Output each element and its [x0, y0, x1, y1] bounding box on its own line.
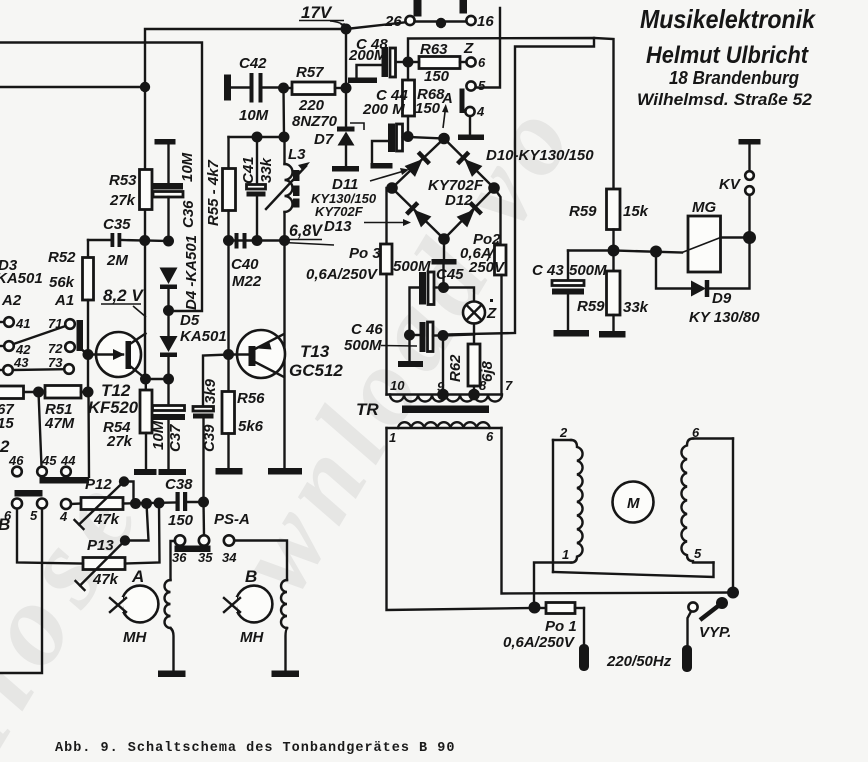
node: L3 top — [279, 132, 290, 143]
svg-text:Z: Z — [486, 305, 497, 322]
potentiometer P12 47k — [59, 476, 124, 529]
node: bridge left vertex — [386, 182, 398, 194]
diode D12 (bridge, right-bottom arm) — [456, 203, 481, 228]
svg-text:T13: T13 — [300, 342, 330, 361]
svg-text:1: 1 — [562, 547, 569, 562]
svg-text:C45: C45 — [436, 266, 464, 283]
svg-text:C42: C42 — [239, 55, 267, 72]
ground: under D7 — [332, 166, 359, 172]
svg-text:Po 3: Po 3 — [349, 245, 381, 262]
svg-text:C39: C39 — [201, 424, 218, 452]
resistor R59 15k — [569, 189, 649, 251]
svg-text:Abb. 9. Schaltschema des Tonba: Abb. 9. Schaltschema des Tonbandgerätes … — [55, 741, 455, 756]
fuse Po3 0,6A/250V — [306, 244, 392, 283]
node: C41 top — [252, 132, 263, 143]
node: T12 source junction — [140, 374, 151, 385]
svg-text:R59: R59 — [569, 203, 597, 220]
node: C46 left junction — [404, 330, 415, 341]
svg-text:C41: C41 — [240, 156, 257, 184]
head MH A — [110, 586, 158, 646]
svg-text:5k6: 5k6 — [238, 418, 264, 435]
wire: 43 to 73 — [13, 368, 64, 371]
node: C38/C39/PS-A junction — [198, 497, 209, 508]
svg-text:D5: D5 — [180, 312, 200, 329]
svg-text:C 46: C 46 — [351, 321, 383, 338]
node: transformer pin 9 — [437, 389, 449, 401]
node: C45 right junction — [438, 282, 449, 293]
node: 17V junction — [341, 24, 352, 35]
capacitor C46 500M — [344, 321, 443, 354]
motor M — [613, 482, 654, 523]
wire: left input line 1 (y=42) into vertical x=202 — [0, 43, 202, 312]
ground: under R56 — [216, 468, 243, 475]
capacitor C38 150 — [165, 476, 204, 529]
wire: left vertex to Po3 — [387, 188, 393, 244]
wire: left input line 2 (y=87) to node at x=145 — [0, 86, 145, 88]
svg-text:D12: D12 — [445, 192, 473, 209]
svg-text:33k: 33k — [623, 299, 649, 316]
svg-text:Po 1: Po 1 — [545, 618, 577, 635]
wire: secondary right down and right to VYP node — [502, 428, 734, 594]
resistor R56 5k6 — [222, 355, 265, 469]
svg-text:5: 5 — [478, 78, 486, 93]
svg-text:0,6A/250V: 0,6A/250V — [503, 634, 576, 651]
switch PS-A pin 36 — [172, 535, 187, 565]
node: rail junction c — [154, 498, 165, 509]
motor winding 6-5 — [681, 425, 733, 563]
node: R55 bottom — [223, 235, 234, 246]
svg-text:4: 4 — [59, 509, 68, 524]
svg-text:3k9: 3k9 — [202, 378, 219, 404]
svg-text:17V: 17V — [301, 3, 333, 22]
transformer TR primary winding 10-9-8-7 — [387, 378, 514, 402]
svg-text:A: A — [441, 90, 453, 107]
connector pin 71 — [48, 316, 75, 331]
contact bar between pins 5 and 4 — [460, 89, 465, 114]
motor winding 2-1 — [534, 425, 583, 608]
resistor R53 27k — [109, 170, 152, 210]
svg-text:C35: C35 — [103, 216, 131, 233]
svg-text:220: 220 — [298, 97, 325, 114]
svg-text:150: 150 — [168, 512, 194, 529]
wire: winding 6 down to VYP node — [732, 439, 734, 593]
wire: wiper link to output rail — [124, 482, 134, 504]
connector pin 41 — [0, 316, 30, 331]
ground: under C43 — [554, 330, 590, 337]
head MH B — [224, 586, 272, 646]
svg-text:R53: R53 — [109, 172, 137, 189]
wire: pin 34 to head coil B — [234, 541, 287, 581]
switch PS-A pin 35 — [198, 502, 213, 565]
ground: under C44 — [371, 163, 393, 169]
connector pin 26 — [384, 0, 422, 30]
wire: C46 node to lamp/R62 rail — [443, 335, 474, 336]
transistor T13 GC512 — [229, 330, 344, 380]
wire: output rail y=503 to C38 — [123, 503, 176, 504]
node: T12 gate junction — [83, 349, 94, 360]
contact KV — [719, 139, 761, 238]
label: D3 KA501 — [0, 257, 43, 287]
wire: Po1 to mains pin left — [583, 608, 585, 644]
node: C36/D4 junction — [163, 236, 174, 247]
node: P13 wiper — [120, 535, 130, 545]
capacitor C41 33k — [240, 137, 275, 241]
wire: link 26 to 16 with junction — [415, 18, 467, 28]
svg-text:KY702F: KY702F — [315, 204, 364, 219]
svg-text:A: A — [131, 567, 144, 586]
svg-text:43: 43 — [13, 355, 29, 370]
label A with arrow — [441, 90, 453, 128]
node: junction x=145 y=87 — [140, 82, 150, 92]
svg-text:26: 26 — [384, 13, 402, 30]
svg-text:R62: R62 — [447, 354, 464, 382]
svg-text:MH: MH — [123, 629, 147, 646]
wire: R51 node down to contact bar — [87, 392, 90, 477]
svg-text:B: B — [245, 567, 257, 586]
svg-text:D10-KY130/150: D10-KY130/150 — [486, 147, 594, 164]
svg-text:Musikelektronik: Musikelektronik — [640, 4, 816, 34]
svg-text:VYP.: VYP. — [699, 624, 731, 641]
svg-text:1: 1 — [389, 430, 396, 445]
coil: head B winding — [281, 580, 287, 671]
connector pin 42 — [0, 341, 31, 357]
svg-text:KA501: KA501 — [0, 270, 43, 287]
node: R57 right junction on zener rail — [341, 83, 352, 94]
svg-text:C 43: C 43 — [532, 262, 564, 279]
svg-text:36: 36 — [172, 550, 187, 565]
capacitor C36 10M — [153, 139, 198, 241]
capacitor C42 — [224, 55, 284, 124]
wire: bar to T12 gate node — [81, 349, 88, 355]
svg-text:150: 150 — [424, 68, 450, 85]
resistor R67 partial at left edge — [0, 386, 34, 432]
node: rail junction b — [141, 498, 152, 509]
svg-text:6: 6 — [478, 55, 486, 70]
wire: right vertex to Po2 — [494, 188, 501, 245]
capacitor C39 3k9 — [193, 378, 219, 502]
node: C42/R57 junction — [278, 83, 289, 94]
svg-text:47k: 47k — [93, 511, 120, 528]
relay MG — [682, 199, 750, 272]
svg-text:0,6A/250V: 0,6A/250V — [306, 266, 379, 283]
wire: vertical x=500 from top edge down to contact 5 — [476, 8, 500, 88]
node: R51 left junction — [33, 387, 44, 398]
svg-text:A1: A1 — [54, 292, 74, 309]
watermark diagonal text — [0, 77, 600, 762]
wire: P13 wiper to rail junction b — [125, 504, 149, 541]
wire: T13 base to C39 leg — [203, 355, 229, 407]
svg-text:6: 6 — [486, 429, 494, 444]
svg-text:33k: 33k — [258, 157, 275, 183]
svg-text:15: 15 — [0, 415, 14, 432]
resistor R62 6j8 — [447, 335, 496, 395]
svg-text:MH: MH — [240, 629, 264, 646]
bridge rectifier frame KY702F — [392, 139, 494, 240]
labels: D11 KY130/150 KY702F D13 left of bridge with arrows — [311, 168, 411, 235]
svg-text:44: 44 — [60, 453, 76, 468]
svg-text:16: 16 — [477, 13, 494, 30]
svg-text:5: 5 — [694, 546, 702, 561]
node: T13 base junction — [223, 349, 234, 360]
node: D5/C37 junction — [163, 374, 174, 385]
connector pin 45 — [37, 453, 57, 476]
label: 17V with underline and arrow — [299, 3, 347, 30]
wire: source node to C37 node — [146, 378, 169, 380]
node: VYP junction — [727, 587, 739, 599]
svg-text:72: 72 — [48, 341, 63, 356]
contact bar under 45/44 — [40, 477, 90, 484]
wire: junction down to 6.8V net wire — [282, 88, 285, 137]
connector pin 5 (bottom row) — [30, 499, 47, 524]
mains plug pin left — [579, 644, 589, 671]
diode D9 KY130/80 — [656, 238, 760, 327]
node: L3 bottom — [279, 235, 290, 246]
svg-text:Wilhelmsd. Straße 52: Wilhelmsd. Straße 52 — [637, 90, 813, 109]
connector pin 72 — [48, 341, 75, 356]
node: R51/R52 junction — [83, 387, 94, 398]
terminal bar: below T13 — [268, 468, 302, 475]
wire: junction to D4 string — [145, 239, 169, 242]
svg-text:TR: TR — [356, 400, 379, 419]
svg-text:250V: 250V — [468, 259, 506, 276]
resistor R63 150 — [408, 41, 466, 85]
svg-text:4: 4 — [476, 104, 485, 119]
corner bracket mark near 8NZ70 — [350, 123, 364, 130]
svg-text:27k: 27k — [109, 192, 136, 209]
transformer core — [402, 406, 489, 414]
svg-text:KA501: KA501 — [180, 328, 227, 345]
resistor R68 150 — [403, 62, 446, 137]
svg-text:34: 34 — [222, 550, 237, 565]
resistor R55 4k7 — [205, 137, 236, 241]
contact bar right of 71/72 — [77, 320, 84, 351]
inductor L3 with core and arrow — [266, 137, 310, 241]
ground: under head B — [272, 671, 300, 678]
ground: under pin 4 — [458, 135, 484, 141]
svg-text:47k: 47k — [92, 571, 119, 588]
svg-text:P13: P13 — [87, 537, 114, 554]
diode D11 (bridge, left-top arm) — [404, 152, 429, 177]
svg-text:500M: 500M — [344, 337, 382, 354]
node: D9/relay junction — [650, 246, 662, 258]
wire: P13 right end to rail junction c — [125, 503, 160, 564]
switch blade 42-71 — [14, 326, 66, 344]
svg-text:C36: C36 — [180, 200, 197, 228]
wire: P13 left end to pin 6 — [17, 509, 83, 564]
node: transformer pin 8 — [468, 389, 480, 401]
svg-text:10M: 10M — [150, 420, 167, 450]
svg-text:8NZ70: 8NZ70 — [292, 113, 338, 130]
svg-text:KF520: KF520 — [88, 398, 139, 417]
svg-text:R57: R57 — [296, 64, 324, 81]
label: 8,2V with underline and tick — [101, 286, 146, 317]
connector pin 5 — [466, 78, 486, 93]
svg-text:D7: D7 — [314, 131, 334, 148]
diode D10 (bridge, right-top arm) — [458, 152, 483, 177]
node: D4/D5 junction with bypass wire — [163, 305, 174, 316]
svg-text:8: 8 — [479, 378, 487, 393]
svg-text:MG: MG — [692, 199, 716, 216]
node: R53/C35 junction — [139, 235, 150, 246]
ground: under R59 33k — [599, 331, 626, 338]
resistor R57 220 — [284, 64, 347, 130]
transistor T12 KF520 — [88, 332, 146, 417]
svg-text:2: 2 — [559, 425, 568, 440]
svg-text:10M: 10M — [239, 107, 269, 124]
svg-text:M: M — [627, 495, 640, 512]
wire: secondary left down and along bottom to Po1 — [387, 428, 535, 610]
wire: C45 node to lamp — [444, 288, 475, 302]
wire: C46 node down to transformer pin 9 — [442, 336, 444, 395]
connector pin 6 (bottom row) — [4, 499, 22, 524]
resistor R59 33k — [577, 251, 649, 332]
label: Musikelektronik address block — [637, 4, 816, 109]
svg-text:C38: C38 — [165, 476, 193, 493]
capacitor C40 M22 — [231, 233, 262, 290]
svg-text:10: 10 — [390, 378, 405, 393]
wire: divider node right to relay — [614, 251, 683, 253]
svg-text:5: 5 — [30, 508, 38, 523]
svg-text:D4 -KA501: D4 -KA501 — [183, 235, 200, 310]
capacitor C44 200M — [362, 87, 408, 163]
node: bridge bottom vertex — [438, 233, 450, 245]
svg-text:150: 150 — [415, 100, 441, 117]
capacitor C45 500M — [393, 258, 464, 335]
svg-text:PS-A: PS-A — [214, 511, 250, 528]
wire: pin 5 long vertical to bottom left — [0, 509, 42, 674]
wire: divider node left to C43 — [568, 249, 614, 251]
svg-text:56k: 56k — [49, 274, 75, 291]
svg-text:8,2 V: 8,2 V — [103, 286, 144, 305]
labels A2 A1 — [1, 292, 74, 309]
node: relay/KV/D9 right junction — [743, 231, 756, 244]
svg-text:A2: A2 — [1, 292, 22, 309]
fuse Po1 0,6A/250V — [503, 603, 584, 652]
connector pin 6 — [466, 55, 486, 70]
node: rail junction a — [130, 498, 141, 509]
connector pin 46 — [8, 453, 24, 476]
wire: top bias rail y=137 — [229, 136, 285, 138]
switch VYP — [688, 597, 732, 645]
svg-text:KV: KV — [719, 176, 742, 193]
resistor R51 47M — [34, 386, 88, 433]
svg-text:41: 41 — [15, 316, 30, 331]
wire: 17V node up-right to connector 26/16 — [346, 23, 404, 30]
svg-text:7: 7 — [505, 378, 513, 393]
svg-text:Helmut Ulbricht: Helmut Ulbricht — [646, 42, 809, 69]
node: R68 bottom / C44 / bridge top feed — [403, 131, 414, 142]
node: bridge right vertex — [488, 182, 500, 194]
node: bridge top vertex — [438, 133, 450, 145]
capacitor C48 200M — [348, 36, 408, 77]
wire: bar down to C45 node — [442, 265, 444, 288]
node: R59 divider junction — [608, 245, 620, 257]
svg-text:6,8V: 6,8V — [289, 221, 324, 240]
svg-text:47M: 47M — [44, 415, 75, 432]
node: C48/R63/R68 junction — [403, 57, 414, 68]
svg-text:GC512: GC512 — [289, 361, 343, 380]
connector pin 4 — [465, 104, 485, 134]
capacitor C37 10M — [150, 379, 185, 469]
wire: C46 left down to ground — [408, 335, 410, 361]
contact bar bridging 36-35 — [175, 546, 211, 553]
svg-text:220/50Hz: 220/50Hz — [606, 653, 672, 670]
node: C41 bottom — [252, 235, 263, 246]
svg-text:18 Brandenburg: 18 Brandenburg — [669, 68, 799, 88]
wire: net from node up and right to x=515 and x=613 branches — [408, 38, 614, 335]
ground: under C37 — [159, 469, 187, 475]
svg-text:Z: Z — [463, 40, 474, 57]
transformer TR secondary winding 1-6 — [387, 422, 502, 445]
svg-text:R52: R52 — [48, 249, 76, 266]
switch PS-A pin 34 — [222, 535, 237, 565]
svg-text:15k: 15k — [623, 203, 649, 220]
label: KY702F D12 inside bridge — [428, 177, 484, 209]
svg-text:35: 35 — [198, 550, 213, 565]
capacitor C43 500M — [532, 251, 607, 331]
contact bar above pins 6/5 — [15, 490, 43, 497]
coil: head A winding — [165, 580, 174, 671]
mains plug pin right — [682, 645, 692, 672]
wire: Po2 down to transformer pin 7 — [500, 275, 502, 395]
fuse Po2 0,6A/250V — [460, 231, 506, 276]
svg-text:KY 130/80: KY 130/80 — [689, 309, 760, 326]
svg-text:200M: 200M — [348, 47, 387, 64]
svg-text:R55 - 4k7: R55 - 4k7 — [205, 159, 222, 226]
wire: +17V rail horizontal and main left vertical x=145 — [145, 29, 346, 379]
svg-text:P12: P12 — [85, 476, 112, 493]
wire: 6.8V rail y=240 — [229, 239, 285, 241]
diode D7 zener 8NZ70 — [314, 127, 355, 167]
connector pin 16 — [460, 0, 495, 30]
svg-text:R56: R56 — [237, 390, 265, 407]
connector pin 44 — [60, 453, 76, 476]
label: 6,8V with underline — [284, 221, 334, 245]
connector pin 73 — [48, 355, 74, 374]
svg-text:C37: C37 — [167, 424, 184, 452]
svg-text:M22: M22 — [232, 273, 262, 290]
wire: motor windings common bottom — [553, 563, 714, 578]
svg-text:27k: 27k — [106, 433, 133, 450]
wire: T13 emitter rail x=284.5 down to terminal — [283, 241, 285, 469]
terminal bar: C48 left — [348, 78, 377, 84]
resistor R54 27k — [103, 379, 152, 469]
capacitor C35 2M — [88, 216, 145, 269]
connector pin 43 — [0, 355, 29, 375]
node: C46 right junction — [438, 330, 449, 341]
ground: under C46 left — [398, 361, 423, 367]
potentiometer P13 47k — [76, 537, 126, 590]
svg-text:73: 73 — [48, 355, 63, 370]
terminal bar: C45 plus — [432, 259, 457, 265]
svg-text:C40: C40 — [231, 256, 259, 273]
resistor R52 56k — [48, 240, 94, 392]
wire: 17V node down through R57 node to D7 — [345, 29, 347, 127]
wire: 6.8V node down to T13 base node — [227, 241, 229, 355]
wire: Po3 down to transformer pin 10 — [385, 274, 387, 395]
ground: under head A — [158, 671, 186, 678]
svg-text:D13: D13 — [324, 218, 352, 235]
diode D5 KA501 — [160, 311, 227, 380]
svg-text:L3: L3 — [288, 146, 306, 163]
svg-text:R59: R59 — [577, 298, 605, 315]
wire: pin 36 to head coil A — [171, 541, 176, 580]
svg-text:D9: D9 — [712, 290, 732, 307]
wire: bridge bottom vertex to C45 plus bar — [443, 239, 445, 259]
svg-text:200 M: 200 M — [362, 101, 405, 118]
wire: node to bridge top vertex — [408, 137, 444, 139]
ground: under R54 — [134, 469, 157, 475]
